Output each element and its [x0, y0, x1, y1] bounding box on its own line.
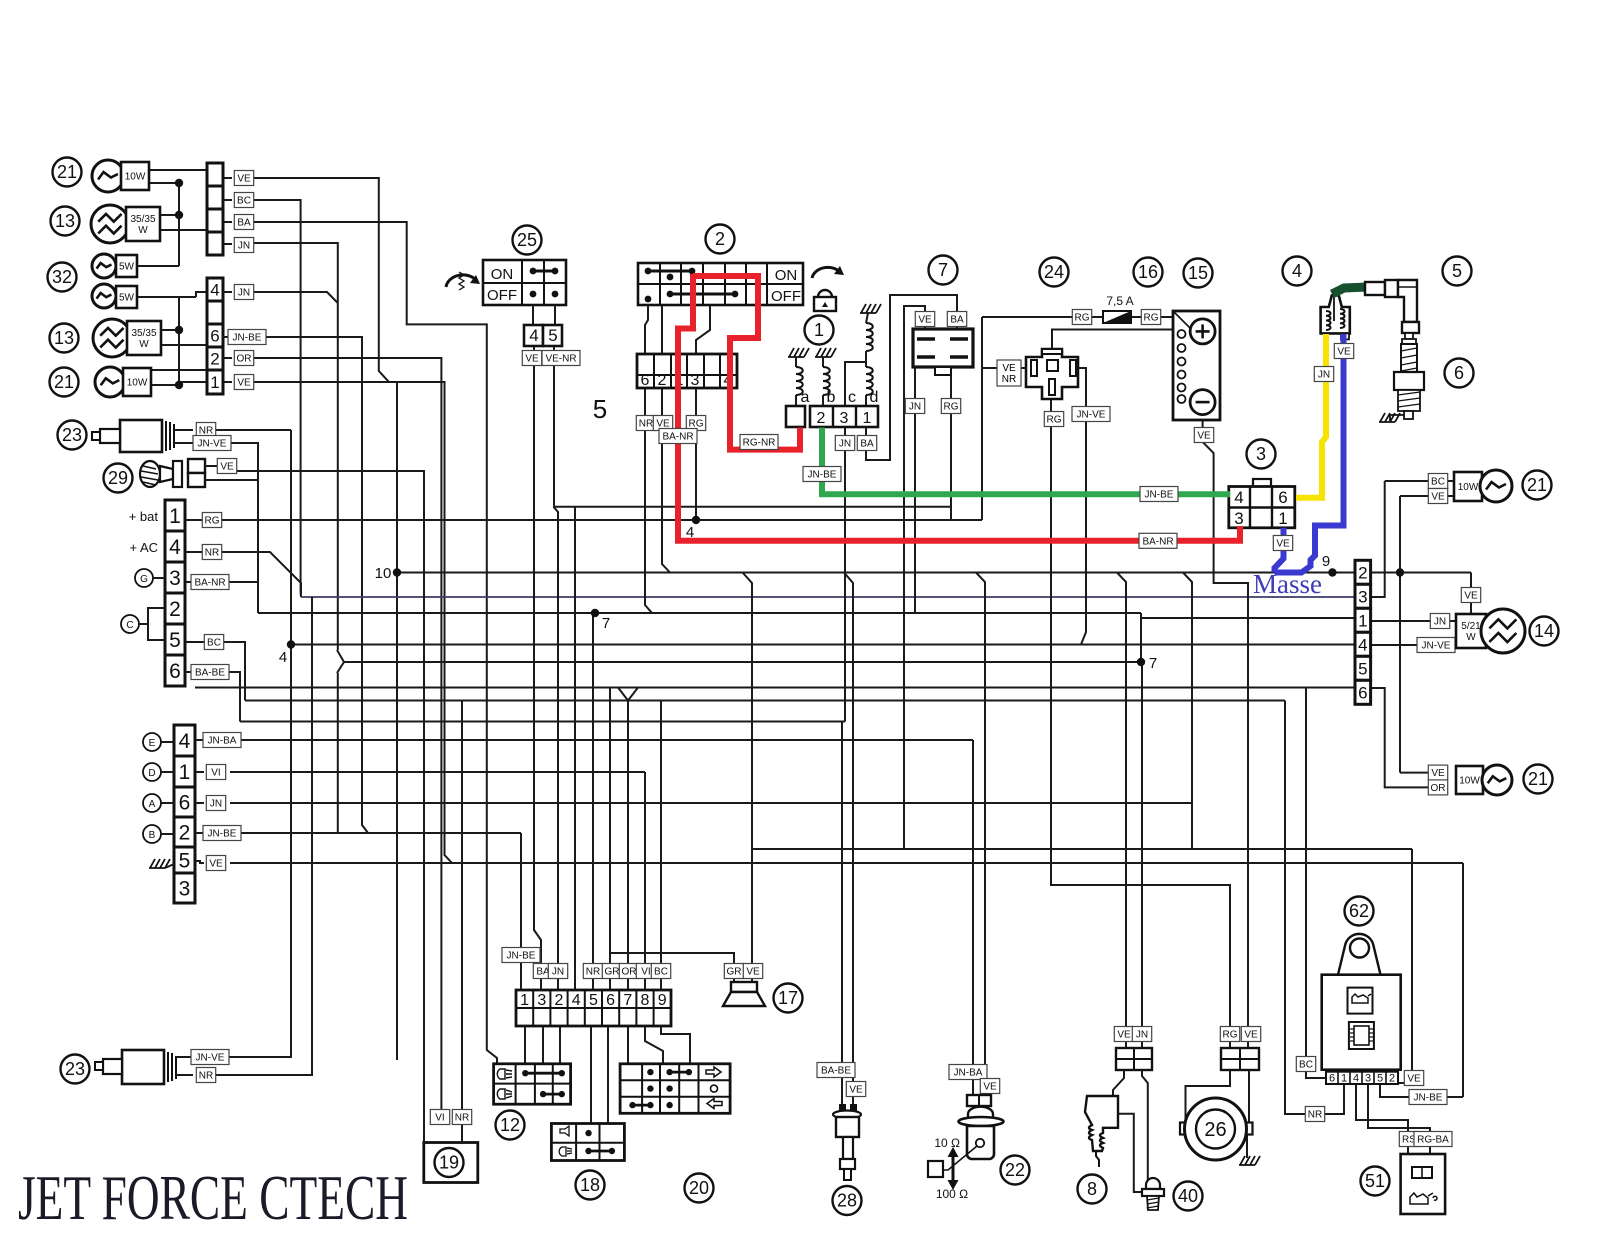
svg-text:2: 2: [555, 992, 564, 1009]
wire to sw20 a: [627, 1026, 629, 1064]
svg-text:1: 1: [1278, 509, 1287, 528]
svg-text:6: 6: [1329, 1073, 1335, 1085]
wire net to pin3 right: [301, 596, 1355, 598]
wire bus 613: [258, 612, 1141, 614]
svg-text:6: 6: [1278, 488, 1287, 507]
wire VE lamp14 drop: [1470, 573, 1472, 615]
svg-text:35/35: 35/35: [130, 214, 155, 225]
svg-text:4: 4: [1353, 1073, 1359, 1085]
wire pin6 BA-BE: [185, 671, 226, 673]
wire ign NR drop: [645, 388, 652, 613]
svg-text:5: 5: [589, 992, 598, 1009]
svg-text:10 Ω: 10 Ω: [934, 1136, 960, 1150]
svg-text:20: 20: [689, 1178, 709, 1198]
svg-text:2: 2: [817, 410, 826, 427]
wire BC drop: [230, 642, 245, 701]
svg-text:BC: BC: [1431, 477, 1445, 488]
connector A 4-pin: [207, 163, 223, 186]
wire comp24 JN-VE: [1078, 368, 1086, 645]
svg-text:4: 4: [210, 281, 219, 300]
ground left connector: [149, 859, 170, 868]
starter motor 26: [1220, 1027, 1239, 1042]
svg-text:10: 10: [375, 565, 392, 582]
wire bus 506: [554, 506, 952, 508]
wire red BA-NR circuit from ignition switch to connector 3 pin 3: [678, 274, 1240, 541]
node 4 left: [287, 640, 295, 648]
svg-text:6: 6: [1454, 363, 1464, 383]
wire 9pin pin7 feed: [627, 701, 629, 991]
svg-text:5: 5: [548, 326, 557, 345]
svg-text:7: 7: [623, 992, 632, 1009]
wire VE into lamp21a: [1400, 495, 1454, 497]
svg-text:6: 6: [641, 372, 650, 389]
svg-text:VE: VE: [1197, 431, 1211, 442]
lamp 21 bottom right: [1428, 765, 1447, 780]
circle 21 b: [50, 368, 79, 397]
stub VE: [223, 177, 232, 179]
wire lamp21a pin2: [149, 182, 179, 184]
wire riser JN-BE right: [1462, 863, 1464, 1097]
wire y-merge 662: [337, 650, 344, 673]
fuse 16: [1134, 258, 1163, 287]
spark plug cap 5: [1443, 257, 1472, 286]
wire RG fuse drop: [981, 317, 983, 520]
9-pin connector: [516, 990, 671, 1026]
stub JN-BA: [195, 739, 204, 741]
svg-text:OFF: OFF: [771, 288, 801, 305]
stub JN-BE-B: [223, 336, 232, 338]
wire GR horn: [611, 953, 734, 982]
wire pin3 BA-NR: [185, 581, 226, 583]
coil connector a: [786, 406, 805, 427]
svg-text:RG: RG: [1047, 415, 1062, 426]
svg-text:9: 9: [658, 992, 667, 1009]
wire battery VE to starter: [1203, 414, 1248, 1048]
svg-text:VE: VE: [220, 462, 234, 473]
wire 28 pin1: [841, 1104, 843, 1110]
wire BC to 62: [1306, 688, 1332, 1085]
instrument box 19: [430, 1110, 449, 1125]
svg-text:5: 5: [1452, 261, 1462, 281]
wire pin5 BC: [185, 641, 230, 643]
svg-text:2: 2: [1389, 1073, 1395, 1085]
svg-text:JN: JN: [210, 799, 222, 810]
svg-text:4: 4: [529, 326, 538, 345]
wire to sw20 c: [661, 1026, 690, 1064]
svg-text:VE: VE: [1002, 363, 1016, 374]
svg-text:JN: JN: [839, 439, 851, 450]
svg-text:21: 21: [1528, 769, 1548, 789]
node 7 left: [591, 609, 599, 617]
stub VE-D: [195, 861, 204, 863]
wire OR pin2 drop: [253, 358, 441, 1113]
svg-text:NR: NR: [639, 419, 653, 430]
temp sensor 29: [104, 464, 133, 493]
connector C +bat 6-pin: [165, 500, 185, 531]
wire j7 up to pin1: [1141, 618, 1355, 662]
node 9: [1328, 568, 1336, 576]
wire G to pin3: [153, 577, 165, 579]
svg-text:18: 18: [580, 1175, 600, 1195]
wire bus 687: [195, 687, 1355, 689]
wire lamp5W-b pin: [137, 296, 196, 298]
wire VE-A net: [252, 178, 452, 863]
svg-text:JN-BE: JN-BE: [507, 951, 536, 962]
wire VE horn riser: [743, 573, 753, 983]
svg-text:6: 6: [1358, 683, 1367, 702]
wire 23 NR pin: [174, 429, 193, 431]
wire coil JN drop: [844, 427, 846, 722]
rotation arrow switch 2: [812, 267, 840, 278]
wire comp24 left: [982, 367, 1031, 369]
bulb 35/35W b: [93, 319, 131, 357]
svg-text:100 Ω: 100 Ω: [936, 1187, 968, 1201]
svg-text:BA: BA: [237, 218, 251, 229]
wire comp7 RG drop: [950, 368, 952, 520]
wire yellow JN from HT coil 4 to connector 3 pin 6: [1296, 334, 1326, 498]
stub JN-D: [195, 802, 204, 804]
svg-text:2: 2: [210, 350, 219, 369]
wire coil d ground: [866, 313, 868, 323]
svg-text:6: 6: [210, 327, 219, 346]
wire OR to lamp21b: [1370, 688, 1429, 787]
svg-text:2: 2: [658, 372, 667, 389]
ground coil b: [815, 348, 836, 357]
wire 23 NR riser: [212, 430, 291, 1057]
svg-text:5: 5: [179, 850, 191, 873]
wire lamp5W-b to pin4: [196, 292, 207, 297]
wire VE into lamp21b: [1400, 772, 1429, 774]
wire 9pin pin9 feed: [660, 701, 662, 991]
svg-text:2: 2: [169, 598, 181, 621]
svg-text:5W: 5W: [119, 293, 135, 304]
wire BA-BE drop: [226, 672, 240, 722]
svg-text:JN: JN: [1136, 1030, 1148, 1041]
svg-text:13: 13: [55, 211, 75, 231]
wire blue VE from HT coil 4 to masse bus: [1275, 334, 1344, 573]
svg-text:25: 25: [517, 230, 537, 250]
regulator 7: [929, 256, 958, 285]
svg-text:JN: JN: [238, 288, 250, 299]
wire pin1 RG: [185, 519, 240, 521]
svg-text:3: 3: [1256, 444, 1266, 464]
wire lamp13b pin2: [161, 344, 207, 346]
coil d lower: [866, 367, 873, 395]
box 10W: [121, 162, 149, 190]
svg-text:VE: VE: [918, 315, 932, 326]
svg-text:D: D: [148, 768, 155, 779]
svg-text:3: 3: [537, 992, 546, 1009]
svg-text:3: 3: [1358, 587, 1367, 606]
stub JN-BE-D: [195, 832, 204, 834]
svg-text:9: 9: [1322, 553, 1330, 570]
svg-text:1: 1: [1341, 1073, 1347, 1085]
svg-text:21: 21: [54, 372, 74, 392]
svg-text:6: 6: [169, 660, 181, 683]
wire 9pin pin6 feed: [609, 688, 611, 991]
svg-text:8: 8: [1087, 1179, 1097, 1199]
coil b: [823, 367, 830, 395]
svg-text:VE: VE: [746, 967, 760, 978]
svg-text:VE: VE: [237, 378, 251, 389]
svg-text:1: 1: [1358, 611, 1367, 630]
svg-text:BA-NR: BA-NR: [662, 432, 693, 443]
svg-text:VE-NR: VE-NR: [545, 354, 576, 365]
wire red RG-NR circuit from ignition switch to coil a: [693, 276, 800, 450]
wire bus 662: [344, 661, 1141, 663]
circle 13: [51, 207, 80, 236]
wire 9pin pin4 feed: [574, 507, 576, 990]
stub: [1140, 613, 1142, 618]
svg-text:6: 6: [179, 792, 191, 815]
wire VE into starter: [1248, 1070, 1250, 1122]
svg-text:VE: VE: [983, 1082, 997, 1093]
horn/flash switch 18: [551, 1124, 624, 1161]
svg-text:JN: JN: [1318, 370, 1330, 381]
svg-text:VI: VI: [211, 768, 220, 779]
wire sw25 contact to pin5: [554, 305, 556, 325]
HT coil / oil injector 8: [1114, 1027, 1133, 1042]
svg-text:BC: BC: [654, 967, 668, 978]
oil sensor 51: [1361, 1167, 1390, 1196]
wire C to pin6: [148, 624, 165, 640]
wire 29 pin2: [205, 480, 258, 582]
svg-text:JN-VE: JN-VE: [198, 439, 227, 450]
svg-text:1: 1: [520, 992, 529, 1009]
wire E to cell: [161, 741, 174, 743]
svg-text:BC: BC: [237, 196, 251, 207]
wire lamp13a pin2: [160, 229, 215, 231]
svg-text:26: 26: [1204, 1119, 1226, 1141]
wire VE to 22: [976, 573, 985, 1084]
wire blue VE from connector 3 pin 1 to masse bus: [1275, 528, 1284, 573]
svg-text:8: 8: [641, 992, 650, 1009]
stub BA: [223, 221, 232, 223]
coil d upper: [866, 323, 873, 351]
box 10W b: [123, 368, 151, 396]
svg-text:BA-NR: BA-NR: [194, 578, 225, 589]
fuel gauge sender 22: [949, 1065, 987, 1080]
svg-text:GR: GR: [727, 967, 742, 978]
wire lamp junction column A: [178, 183, 180, 266]
padlock icon: [814, 297, 836, 311]
lamp 14: [1461, 588, 1480, 603]
wire comp24 top to battery: [1052, 330, 1190, 350]
svg-text:35/35: 35/35: [131, 328, 156, 339]
svg-text:23: 23: [65, 1059, 85, 1079]
svg-text:14: 14: [1534, 621, 1554, 641]
svg-text:40: 40: [1178, 1186, 1198, 1206]
battery 15: [1184, 259, 1213, 288]
wire sw2 col2 to pin2: [661, 305, 663, 354]
wire BC-A net: [252, 200, 301, 597]
svg-text:RG: RG: [1144, 313, 1159, 324]
svg-text:RG: RG: [1075, 313, 1090, 324]
wire JN lamp14: [1370, 620, 1456, 622]
svg-text:JN-BE: JN-BE: [233, 333, 262, 344]
wire sw2 col4 to pin3: [696, 305, 710, 354]
connector 3: [1247, 440, 1276, 469]
svg-text:BA: BA: [950, 315, 964, 326]
box 5W a: [116, 255, 137, 277]
svg-text:JN: JN: [238, 241, 250, 252]
stub VE-B: [223, 381, 232, 383]
wire 23b NR riser: [206, 597, 312, 1075]
wire JN row: [230, 802, 1192, 804]
svg-text:16: 16: [1138, 262, 1158, 282]
bulb 5W a: [92, 254, 116, 278]
bulb 10W b: [95, 367, 125, 397]
wire BA-A net: [252, 222, 497, 1064]
wire JN-BA row: [230, 739, 973, 741]
svg-text:4: 4: [572, 992, 581, 1009]
wire lamp13a pin1: [160, 214, 179, 216]
wire BC into lamp21a: [1385, 480, 1454, 482]
svg-text:NR: NR: [586, 967, 600, 978]
wire comp7 JN drop: [914, 368, 916, 613]
wire JN-BE from 62: [1380, 1084, 1463, 1097]
svg-text:E: E: [149, 738, 156, 749]
wire bus 700: [245, 700, 1285, 702]
ground spark plug: [1379, 413, 1400, 422]
svg-text:3: 3: [691, 372, 700, 389]
connector D EDAB 6-pin: [174, 725, 195, 756]
node 10: [393, 568, 401, 576]
wire to sw12 a: [524, 1026, 526, 1064]
svg-text:21: 21: [1527, 475, 1547, 495]
wire drop 337b: [337, 673, 339, 833]
svg-text:BC: BC: [207, 638, 221, 649]
wire starter to ground: [1246, 1135, 1248, 1158]
HT coil 4: [1283, 257, 1312, 286]
svg-text:51: 51: [1365, 1171, 1385, 1191]
wire to sw20 b: [645, 1026, 663, 1064]
svg-text:W: W: [139, 339, 149, 350]
ignition connector 6-pin: [637, 354, 737, 388]
wire bus 849: [752, 848, 1412, 850]
wire ign VE drop to masse: [662, 388, 670, 573]
wire lamp junction column B: [178, 297, 180, 385]
wire VE row: [230, 862, 1463, 864]
svg-text:JN-BA: JN-BA: [954, 1068, 983, 1079]
wire coil d to box 1: [865, 395, 867, 406]
wire lamp21b pin1: [151, 369, 207, 371]
wire JN-BE row: [230, 832, 521, 834]
svg-text:W: W: [138, 225, 148, 236]
svg-text:RG: RG: [1223, 1030, 1238, 1041]
wire drop 462: [461, 701, 463, 1143]
wire JN-BE pin6 drop: [252, 337, 368, 833]
wire 23b JN-VE pin: [176, 1056, 193, 1058]
stub JN: [223, 243, 232, 245]
svg-text:VE: VE: [237, 174, 251, 185]
svg-text:ON: ON: [775, 267, 798, 284]
svg-text:JN-VE: JN-VE: [196, 1053, 225, 1064]
svg-text:6: 6: [606, 992, 615, 1009]
wire lamp5W-a pin: [137, 265, 179, 267]
svg-text:VE: VE: [849, 1085, 863, 1096]
right 6-pin connector: [1355, 560, 1371, 584]
svg-text:1: 1: [814, 320, 824, 340]
svg-text:JN-BE: JN-BE: [1145, 490, 1174, 501]
svg-text:12: 12: [500, 1115, 520, 1135]
svg-text:10W: 10W: [1459, 776, 1480, 787]
svg-text:VE: VE: [1117, 1030, 1131, 1041]
svg-text:VE: VE: [1337, 347, 1351, 358]
wire VE right riser: [1399, 496, 1401, 773]
wire sw25 pin4 drop: [534, 345, 541, 990]
svg-text:JN-BA: JN-BA: [208, 736, 237, 747]
wire VI row: [230, 771, 645, 773]
wire BA-NR stub: [226, 581, 258, 583]
wire VE 29 drop: [234, 471, 424, 1142]
svg-text:JN-VE: JN-VE: [1422, 641, 1451, 652]
svg-text:NR: NR: [205, 548, 219, 559]
wire NR 23 stub: [206, 429, 291, 431]
svg-text:3: 3: [179, 878, 191, 901]
bulb 5W b: [92, 284, 116, 308]
switch 25: [513, 226, 542, 255]
svg-text:OR: OR: [622, 967, 637, 978]
wire NR diag: [230, 552, 301, 597]
wire sw2 col1 to pin6: [645, 305, 648, 354]
svg-text:NR: NR: [1002, 374, 1016, 385]
svg-text:VE: VE: [1276, 539, 1290, 550]
wire VE into comp 8: [1113, 1070, 1124, 1098]
svg-text:VE: VE: [1431, 492, 1445, 503]
svg-text:JN: JN: [909, 402, 921, 413]
svg-text:JN-BE: JN-BE: [1414, 1093, 1443, 1104]
wire sw25 contact to pin4: [532, 305, 534, 325]
wire A to cell: [161, 802, 174, 804]
svg-text:3: 3: [1234, 509, 1243, 528]
svg-text:BC: BC: [1299, 1060, 1313, 1071]
brake switch 23 top: [58, 421, 87, 450]
box 35/35W b: [127, 321, 161, 355]
wire RG to starter: [1051, 396, 1230, 1048]
wire bus 644: [291, 644, 1355, 646]
stub JN-B: [223, 291, 232, 293]
wire comp 8 to bolt: [1118, 1114, 1142, 1192]
wire coil a to box: [795, 395, 797, 406]
wire to sw12 b: [542, 1026, 544, 1064]
wire NR from 62: [1285, 701, 1344, 1115]
box 5W b: [116, 286, 137, 308]
wire coil b to box 2: [822, 395, 824, 406]
wire comp7 BA loop: [866, 295, 957, 460]
bolt 40: [1146, 1178, 1160, 1189]
wire VE to 8: [1117, 573, 1126, 1049]
wire VE to 62: [1411, 849, 1413, 1070]
circle 13 b: [50, 324, 79, 353]
wire v-merge 687: [618, 688, 638, 701]
wire c branch: [845, 362, 866, 406]
coil a: [796, 367, 803, 395]
wire JN-VE lamp14: [1370, 644, 1456, 646]
svg-text:5: 5: [1358, 659, 1367, 678]
svg-text:2: 2: [715, 229, 725, 249]
wire coil b ground: [822, 357, 824, 367]
wire masse bus: [397, 572, 1471, 574]
wire 9pin pin1 feed: [520, 833, 522, 990]
wire lamp21b pin2: [151, 384, 179, 386]
svg-text:2: 2: [1358, 563, 1367, 582]
wire JN to bolt 40: [1142, 1070, 1148, 1180]
svg-text:62: 62: [1349, 901, 1369, 921]
wire JN to 8: [1141, 662, 1143, 1048]
wire fuse right to battery+: [1131, 316, 1173, 318]
wire VE to 28: [844, 573, 853, 1111]
